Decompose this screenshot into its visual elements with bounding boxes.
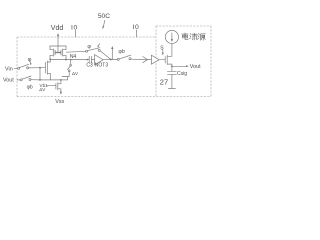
- leader arrow 50C: [103, 20, 104, 26]
- wire buffer to gate: [159, 59, 165, 61]
- wire Vin lead: [14, 67, 18, 69]
- svg-text:Vout: Vout: [3, 77, 14, 83]
- wire I0 left stub: [74, 30, 76, 37]
- svg-text:Vin: Vin: [5, 67, 13, 73]
- switch SW2 (phi-b): [20, 79, 22, 81]
- leader arrow phi 2: [98, 44, 99, 46]
- node junction Q2 drain: [65, 59, 67, 61]
- svg-text:I0: I0: [133, 24, 140, 31]
- inverter NOT3: [95, 55, 104, 65]
- label current source kanji RYU: [190, 33, 198, 40]
- svg-text:Vss: Vss: [55, 99, 64, 105]
- wire NOT3 output: [103, 59, 117, 61]
- node output junction: [110, 59, 112, 61]
- transistor Q1 (left of cross pair): [50, 46, 55, 59]
- node Vss junction: [60, 79, 62, 81]
- leader line Vb1 gate: [46, 84, 56, 86]
- current arrow up: [111, 49, 113, 60]
- switch SW1 (phi): [18, 67, 20, 69]
- wire node N4 horizontal: [50, 58, 89, 60]
- svg-text:Vout: Vout: [190, 64, 201, 70]
- wire Vout lead: [17, 79, 20, 81]
- node output stage junction: [171, 66, 173, 68]
- node N4 junction left: [49, 59, 51, 61]
- switch SW3 (phi 2): [86, 50, 88, 52]
- wire SW3 to output node: [100, 51, 111, 60]
- svg-text:Vdd: Vdd: [51, 25, 64, 32]
- wire gate line to SW3: [66, 50, 85, 53]
- svg-text:Csig: Csig: [177, 71, 187, 77]
- current source CS1: [165, 30, 178, 43]
- wire center feed and gate arrows: [57, 46, 59, 53]
- wire I0 right stub: [135, 30, 137, 37]
- transistor M4 tail sink: [56, 80, 61, 92]
- switch SW5 vertical: [70, 59, 72, 61]
- wire SW4 to buffer: [131, 58, 151, 60]
- Vdd supply arrow: [57, 36, 59, 47]
- svg-text:C3: C3: [86, 62, 93, 68]
- svg-text:27: 27: [160, 77, 168, 86]
- svg-text:ΔV: ΔV: [72, 71, 78, 76]
- svg-text:φb: φb: [27, 84, 33, 90]
- label current source kanji GEN: [198, 34, 206, 41]
- leader arrow S: [162, 50, 164, 53]
- dashed enclosure main block: [17, 26, 211, 97]
- svg-text:φ: φ: [87, 44, 91, 50]
- transistor M3 output: [165, 44, 172, 67]
- svg-text:φ: φ: [28, 57, 32, 63]
- switch SW4 (phi-b 2): [117, 58, 119, 60]
- transistor Q2 (right of cross pair): [61, 46, 66, 60]
- wire node A vertical: [39, 68, 41, 80]
- svg-text:I0: I0: [71, 24, 78, 31]
- wire Vdd rail: [50, 45, 66, 47]
- transistor M1: [40, 60, 50, 80]
- svg-text:ΔV: ΔV: [39, 87, 46, 92]
- wire Vin to node A: [29, 67, 40, 69]
- wire bottom feedback rail: [31, 79, 67, 81]
- flow arrowhead: [143, 57, 148, 63]
- leader arrow phi: [29, 62, 31, 64]
- buffer U1: [151, 55, 159, 64]
- label current source kanji DEN: [182, 33, 189, 40]
- capacitor Csig: [167, 66, 176, 88]
- arrow Vout right: [172, 65, 187, 67]
- capacitor C3: [87, 59, 89, 61]
- svg-text:NOT3: NOT3: [95, 63, 109, 69]
- svg-text:50C: 50C: [98, 13, 110, 20]
- svg-text:φb: φb: [118, 49, 124, 55]
- node A: [39, 67, 41, 69]
